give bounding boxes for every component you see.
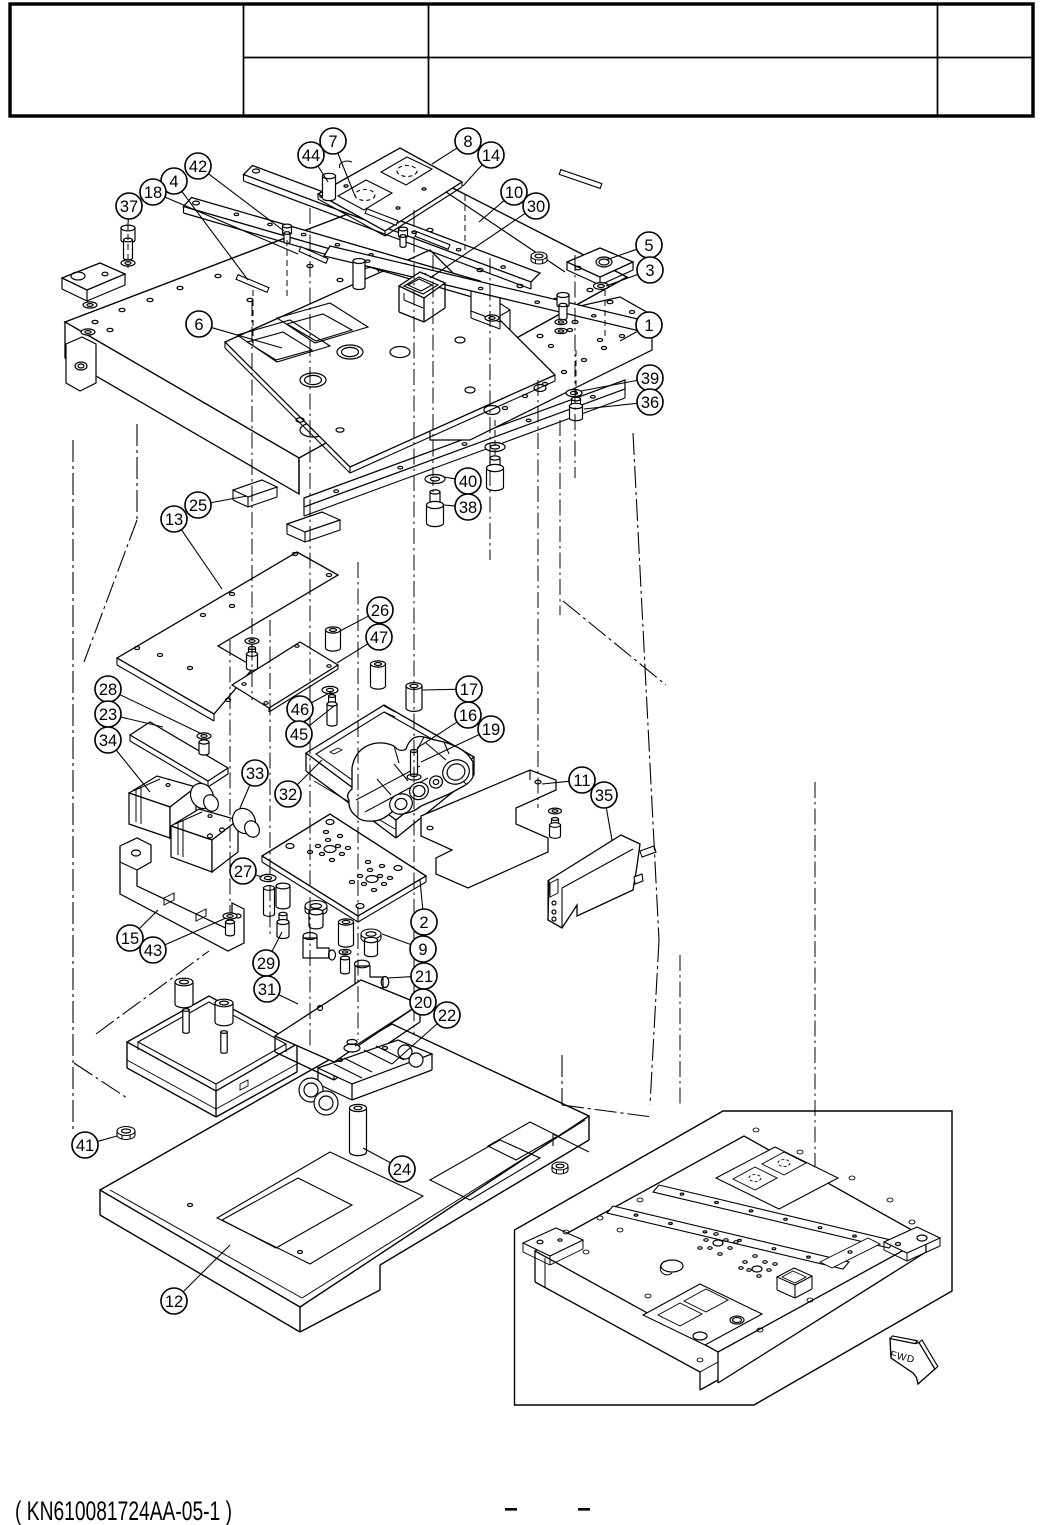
bolt below 13 (197, 733, 211, 755)
nut right (531, 252, 547, 264)
bracket item 15 (120, 838, 244, 951)
screw item 43 (223, 913, 237, 936)
bolt item 11b (549, 808, 562, 838)
balloon 6 (186, 311, 212, 337)
left bracket (62, 263, 125, 301)
balloon 8 (455, 128, 481, 154)
balloon 41 (72, 1132, 98, 1158)
svg-text:42: 42 (189, 158, 207, 176)
balloon 34 (95, 727, 121, 753)
pin 31a (183, 1009, 189, 1034)
balloon 22 (434, 1002, 460, 1028)
standoff 31b (215, 999, 233, 1026)
svg-text:34: 34 (99, 732, 117, 750)
phantom line left vertical (72, 440, 74, 1133)
svg-text:14: 14 (482, 147, 500, 165)
valve item 22 (299, 1040, 432, 1116)
plate edge line (412, 169, 565, 272)
balloon 12 (161, 1288, 187, 1314)
balloon 45 (286, 721, 312, 747)
strip item 23 (130, 722, 228, 787)
plate item 2 (262, 814, 426, 922)
balloon 7 (320, 128, 346, 154)
spacer 27a (264, 886, 275, 917)
balloon 36 (637, 389, 663, 415)
washer item 46 (322, 686, 338, 693)
balloon 21 (411, 963, 437, 989)
svg-text:39: 39 (641, 370, 659, 388)
svg-text:30: 30 (527, 198, 545, 216)
svg-text:10: 10 (505, 184, 523, 202)
screw item 29 (277, 912, 289, 938)
svg-text:22: 22 (438, 1007, 456, 1025)
svg-text:15: 15 (121, 930, 139, 948)
washers under 5 (555, 319, 567, 333)
svg-text:9: 9 (418, 941, 427, 959)
balloon 9 (410, 936, 436, 962)
balloon 30 (523, 193, 549, 219)
svg-text:( KN610081724AA-05-1 ): ( KN610081724AA-05-1 ) (15, 1496, 232, 1525)
svg-text:25: 25 (189, 497, 207, 515)
elbow item 21 (355, 960, 389, 988)
balloon 4 (161, 168, 187, 194)
fitting item 9b (361, 929, 381, 957)
phantom line left diagonal upper (84, 424, 137, 662)
bolt item 28 (245, 638, 259, 670)
washer item 40 (425, 475, 445, 484)
pin item 4b (236, 275, 269, 293)
svg-text:16: 16 (459, 707, 477, 725)
spacer mid (371, 661, 386, 689)
svg-text:44: 44 (302, 147, 320, 165)
phantom line inset link (562, 1055, 652, 1117)
svg-text:2: 2 (419, 914, 428, 932)
rail item 44 upper (244, 166, 541, 290)
balloon 5 (636, 232, 662, 258)
bolt small 1 (399, 227, 408, 247)
FWD arrow (889, 1336, 938, 1384)
washer on plate 1 (485, 315, 499, 321)
balloon 27 (230, 858, 256, 884)
elbow fitting a (303, 933, 336, 961)
standoff item 44 (323, 173, 336, 200)
valve block item 20 (275, 980, 420, 1080)
svg-text:6: 6 (194, 316, 203, 334)
svg-text:29: 29 (257, 955, 275, 973)
balloon 16 (455, 702, 481, 728)
balloon 38 (455, 494, 481, 520)
washer item 3 (594, 283, 609, 290)
svg-text:23: 23 (99, 706, 117, 724)
balloon 10 (501, 179, 527, 205)
svg-text:8: 8 (463, 133, 472, 151)
leader lines (98, 148, 637, 1291)
svg-text:19: 19 (482, 721, 500, 739)
inset screws (563, 1128, 915, 1362)
box item 31 (127, 996, 297, 1117)
spacer item 26 (326, 627, 341, 651)
inset left bracket (523, 1228, 583, 1265)
bolt on rail A (283, 224, 292, 243)
rail item 4 lower (184, 198, 481, 298)
explosion center lines (230, 208, 815, 1225)
balloon 40 (455, 468, 481, 494)
fitting item 9 (305, 901, 327, 929)
balloon 15 (117, 925, 143, 951)
bolt under 5 (557, 293, 569, 320)
inset top plate (716, 1147, 838, 1209)
svg-text:7: 7 (328, 133, 337, 151)
svg-text:5: 5 (644, 237, 653, 255)
spacer item 21a (339, 919, 354, 947)
svg-text:36: 36 (641, 394, 659, 412)
phantom line right diagonal (563, 601, 666, 685)
svg-text:12: 12 (165, 1293, 183, 1311)
washer item 39 (566, 389, 582, 396)
inset lower plate (643, 1284, 762, 1345)
spacer item 17 (406, 683, 422, 712)
spacer 27b (276, 883, 290, 909)
svg-text:31: 31 (258, 981, 276, 999)
pin 31b (221, 1031, 227, 1054)
svg-text:28: 28 (99, 681, 117, 699)
bolt item 45 (327, 695, 337, 727)
svg-text:17: 17 (460, 681, 478, 699)
balloon 31 (254, 976, 280, 1002)
svg-text:21: 21 (415, 968, 433, 986)
plate item 8 (318, 148, 462, 236)
inset switch (777, 1268, 812, 1298)
balloon 42 (185, 153, 211, 179)
balloon 39 (637, 365, 663, 391)
balloon 2 (411, 909, 437, 935)
balloon 37 (116, 193, 142, 219)
standoff pin (353, 259, 365, 290)
inset bar (820, 1238, 880, 1268)
svg-text:43: 43 (144, 942, 162, 960)
svg-text:47: 47 (370, 629, 388, 647)
svg-text:38: 38 (459, 499, 477, 517)
washer 40b (485, 443, 505, 452)
svg-text:26: 26 (371, 602, 389, 620)
svg-text:32: 32 (279, 786, 297, 804)
inset base plate (535, 1136, 926, 1390)
balloon 24 (389, 1156, 415, 1182)
svg-text:27: 27 (234, 863, 252, 881)
balloon 20 (410, 989, 436, 1015)
washer item 37 (121, 260, 135, 266)
pin item 19 (407, 750, 421, 781)
bracket item 5 (567, 248, 633, 285)
left bracket washer (81, 302, 97, 335)
balloon 43 (140, 937, 166, 963)
washer item 27 (260, 874, 276, 881)
phantom line left lower diagonal (74, 951, 209, 1098)
standoff 31a (175, 978, 193, 1008)
svg-text:3: 3 (645, 262, 654, 280)
bolt item 37 (121, 225, 135, 260)
balloon 11 (569, 767, 595, 793)
balloon 3 (637, 257, 663, 283)
balloon 28 (95, 676, 121, 702)
balloon 29 (253, 950, 279, 976)
bolt item 38 (427, 490, 444, 527)
pin mid (415, 232, 450, 250)
inset right bracket (884, 1227, 940, 1261)
balloon 1 (636, 312, 662, 338)
balloon 18 (140, 179, 166, 205)
inset hole clusters (660, 1233, 777, 1278)
sensor item 35 (548, 835, 656, 928)
balloon 13 (161, 506, 187, 532)
balloon 33 (242, 760, 268, 786)
main plate item 10 (65, 180, 627, 494)
balloon 23 (95, 701, 121, 727)
svg-text:18: 18 (144, 184, 162, 202)
svg-text:24: 24 (393, 1161, 411, 1179)
nut item 41 (117, 1127, 135, 1140)
svg-text:46: 46 (291, 701, 309, 719)
svg-text:4: 4 (169, 173, 178, 191)
camera item 34b (171, 804, 262, 872)
svg-text:37: 37 (120, 198, 138, 216)
balloon 35 (591, 782, 617, 808)
svg-text:35: 35 (595, 787, 613, 805)
inset rails (607, 1185, 895, 1269)
svg-text:41: 41 (76, 1137, 94, 1155)
dashed drop lines (128, 195, 605, 492)
bottom rail (304, 380, 625, 516)
pad item 25a (233, 480, 277, 507)
tray item 12 (100, 1024, 589, 1332)
tray item 32 (306, 705, 474, 838)
plate item 6 (225, 250, 555, 473)
balloon 17 (456, 676, 482, 702)
title block table (10, 4, 1033, 116)
balloon 44 (298, 142, 324, 168)
standoff item 24 (350, 1104, 367, 1155)
pad item 25b (287, 512, 340, 542)
balloon 25 (185, 492, 211, 518)
nut right low (552, 1162, 568, 1174)
svg-text:40: 40 (459, 473, 477, 491)
plate item 13 (117, 552, 338, 721)
svg-text:33: 33 (246, 765, 264, 783)
inset frame (515, 1111, 953, 1405)
drawing number (15, 1496, 590, 1525)
svg-text:13: 13 (165, 511, 183, 529)
pin top (365, 209, 398, 226)
manifold items 16 19 (348, 737, 473, 822)
balloon 26 (367, 597, 393, 623)
pin item 4a (299, 247, 328, 264)
bracket item 11 (421, 770, 556, 888)
balloon 47 (366, 624, 392, 650)
fitting small (339, 949, 351, 974)
balloon 19 (478, 716, 504, 742)
balloon 14 (478, 142, 504, 168)
rail item 10 long (324, 246, 650, 332)
switch item 30 (399, 272, 445, 322)
plate item 47 (232, 642, 338, 712)
svg-text:45: 45 (290, 726, 308, 744)
camera item 34a (129, 776, 221, 838)
svg-text:11: 11 (573, 772, 590, 790)
main plate flange (66, 337, 96, 391)
balloon 46 (287, 696, 313, 722)
phantom line right vertical (633, 433, 659, 1105)
rail end block (471, 287, 500, 329)
balloon 32 (275, 781, 301, 807)
pin right (559, 170, 602, 189)
bolt 38b (487, 456, 504, 491)
svg-text:20: 20 (414, 994, 432, 1012)
svg-text:1: 1 (644, 317, 653, 335)
plate item 1 (363, 297, 652, 440)
bolt item 36 (570, 397, 583, 421)
